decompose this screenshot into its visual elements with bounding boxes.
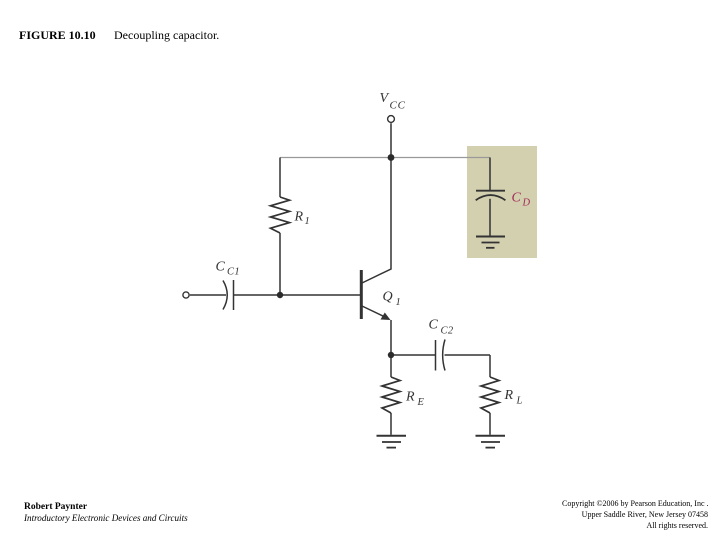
svg-text:1: 1 — [305, 216, 310, 227]
svg-text:C: C — [512, 191, 522, 206]
svg-text:R: R — [504, 388, 514, 403]
svg-text:C2: C2 — [441, 326, 454, 337]
svg-text:D: D — [522, 198, 531, 209]
svg-text:C1: C1 — [227, 267, 240, 278]
svg-text:1: 1 — [396, 297, 401, 308]
svg-text:R: R — [294, 210, 304, 225]
svg-text:C: C — [429, 318, 439, 333]
svg-text:C: C — [216, 260, 226, 275]
svg-text:R: R — [405, 390, 415, 405]
svg-text:L: L — [516, 396, 523, 407]
svg-text:CC: CC — [390, 100, 406, 112]
svg-text:E: E — [417, 397, 425, 408]
svg-text:Q: Q — [383, 290, 393, 305]
svg-text:V: V — [380, 91, 390, 106]
